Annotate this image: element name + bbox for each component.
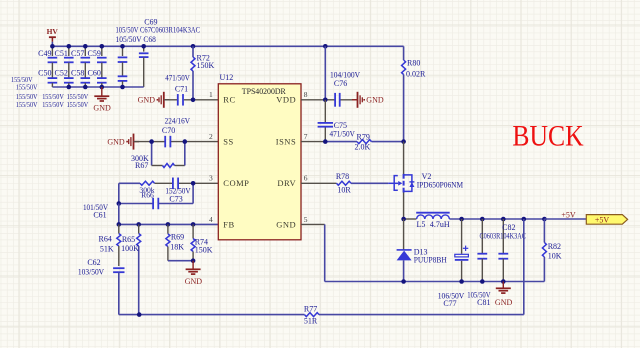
junction (VDD node) (323, 98, 328, 103)
svg-text:+5V: +5V (561, 210, 576, 219)
wire COMP top branch (119, 182, 219, 184)
resistor R66 (139, 181, 154, 199)
resistor R80 (402, 46, 426, 141)
wire VDD row (301, 99, 358, 101)
svg-text:FB: FB (223, 219, 234, 229)
label BUCK (512, 119, 583, 152)
svg-text:2.0K: 2.0K (355, 142, 371, 151)
svg-text:8: 8 (304, 90, 308, 99)
svg-text:C49: C49 (38, 49, 51, 58)
svg-text:BUCK: BUCK (512, 119, 583, 152)
svg-text:PUUP8BH: PUUP8BH (414, 255, 447, 264)
resistor R79 (355, 132, 372, 151)
svg-text:105/50V C67C0603R104K3AC: 105/50V C67C0603R104K3AC (116, 25, 201, 34)
capacitor C71 (165, 74, 190, 106)
resistor R67 (131, 142, 185, 171)
svg-text:C71: C71 (175, 84, 188, 93)
capacitor C68 (139, 46, 149, 87)
svg-text:GND: GND (93, 104, 111, 113)
capacitor C75 (318, 100, 355, 142)
wire feedback (long bottom) (119, 219, 524, 315)
svg-text:R78: R78 (336, 172, 349, 181)
svg-text:C59: C59 (88, 49, 101, 58)
wire bank bottom bus (52, 86, 143, 88)
svg-text:C58: C58 (71, 69, 84, 78)
svg-text:RC: RC (223, 95, 235, 105)
junction dots output bus (401, 217, 546, 222)
resistor R78 (336, 172, 352, 194)
svg-text:10K: 10K (548, 252, 562, 261)
capacitor C49/C50 (input bank) (38, 46, 57, 87)
svg-text:0.02R: 0.02R (406, 70, 426, 79)
svg-text:R65: R65 (122, 235, 135, 244)
svg-text:C61: C61 (93, 211, 106, 220)
svg-text:155/50V: 155/50V (16, 100, 38, 109)
ground (C71) (138, 92, 170, 108)
node +5V label (561, 210, 576, 219)
svg-text:51R: 51R (304, 317, 318, 326)
junction (R74/R69 gnd node) (191, 258, 196, 263)
capacitor C59/C60 (input bank) (88, 46, 107, 87)
capacitor C82 (480, 219, 526, 282)
wire VDD to bus (324, 46, 326, 100)
junction dots ground bus (401, 279, 505, 284)
resistor R65 (121, 224, 141, 314)
svg-text:155/50V: 155/50V (16, 83, 38, 92)
svg-text:COMP: COMP (223, 178, 249, 188)
ground (C70) (107, 134, 139, 150)
capacitor C76 (330, 70, 360, 106)
svg-text:7: 7 (304, 132, 308, 141)
svg-text:C57: C57 (71, 49, 84, 58)
resistor R64 (99, 224, 121, 266)
svg-text:3: 3 (209, 174, 213, 183)
wire GND pin 5 (301, 224, 325, 281)
svg-text:51K: 51K (100, 245, 114, 254)
inductor L5 (416, 213, 450, 229)
svg-text:10R: 10R (337, 185, 351, 194)
wire to +5V port (544, 218, 586, 220)
wire input bus (52, 45, 403, 47)
svg-text:GND: GND (495, 298, 513, 307)
value labels input bank 155/50V (11, 75, 89, 109)
svg-text:6: 6 (304, 174, 308, 183)
svg-text:VDD: VDD (276, 95, 296, 105)
svg-text:C0603R104K3AC: C0603R104K3AC (480, 231, 526, 240)
svg-text:C77: C77 (443, 299, 456, 308)
svg-text:R77: R77 (304, 304, 317, 313)
svg-text:R66: R66 (141, 190, 154, 199)
capacitor C51/C52 (input bank) (55, 46, 74, 87)
junction (RC node) (191, 98, 196, 103)
svg-text:5: 5 (304, 215, 308, 224)
svg-text:ISNS: ISNS (276, 137, 296, 147)
wire SS row (134, 141, 219, 143)
svg-text:C52: C52 (55, 69, 68, 78)
junction dots ISNS node (323, 139, 406, 144)
svg-text:471/50V: 471/50V (165, 74, 190, 83)
resistor R69 (166, 224, 193, 260)
svg-text:471/50V: 471/50V (330, 130, 356, 139)
svg-text:18K: 18K (170, 243, 184, 252)
capacitor C57/C58 (input bank) (71, 46, 90, 87)
svg-text:150K: 150K (195, 245, 213, 254)
svg-text:DRV: DRV (277, 178, 296, 188)
svg-text:155/50V: 155/50V (67, 100, 89, 109)
svg-text:SS: SS (223, 137, 233, 147)
capacitor C73 (165, 178, 191, 204)
svg-text:4.7uH: 4.7uH (430, 220, 450, 229)
svg-text:103/50V: 103/50V (78, 268, 104, 277)
ground (C76) (352, 92, 384, 108)
svg-text:+5V: +5V (595, 215, 610, 224)
svg-text:L5: L5 (417, 220, 426, 229)
svg-text:R67: R67 (135, 161, 148, 170)
resistor R77 (304, 304, 319, 325)
power port +5V flag (586, 215, 627, 225)
svg-text:U12: U12 (220, 73, 234, 82)
svg-text:C76: C76 (334, 79, 347, 88)
svg-text:C73: C73 (169, 194, 182, 203)
capacitor C70 (162, 116, 190, 147)
junction dots FB row (117, 222, 196, 227)
svg-text:155/50V: 155/50V (42, 100, 64, 109)
wire DRV row (301, 182, 388, 184)
wire RC row (164, 99, 219, 101)
resistor R74 (191, 224, 213, 260)
svg-text:224/16V: 224/16V (165, 116, 191, 125)
svg-text:2: 2 (209, 132, 213, 141)
svg-text:R80: R80 (407, 59, 420, 68)
transistor V2 IPD650P06NM (388, 142, 463, 219)
svg-text:C81: C81 (477, 298, 490, 307)
svg-text:IPD650P06NM: IPD650P06NM (417, 180, 463, 189)
capacitor C81 (467, 219, 490, 307)
labels C69 / C67 / C68 values (116, 17, 201, 44)
ground (input bank) (93, 87, 111, 113)
svg-text:HV: HV (47, 27, 59, 36)
op-amp U12 TPS40200DR (209, 73, 308, 240)
svg-text:C50: C50 (38, 69, 51, 78)
ground (FB divider) (185, 261, 203, 286)
wire output node to L5 (404, 218, 545, 220)
svg-text:GND: GND (276, 219, 296, 229)
svg-text:R82: R82 (548, 242, 561, 251)
capacitor C62 (78, 258, 125, 315)
ground (output) (495, 282, 513, 307)
svg-text:C62: C62 (87, 258, 100, 267)
junction dots SS node (149, 139, 187, 144)
power port HV (47, 27, 59, 47)
resistor R72 (191, 46, 215, 100)
junction dots input bus (50, 44, 328, 49)
svg-text:105/50V C68: 105/50V C68 (116, 35, 156, 44)
capacitor C67 (two series) (118, 46, 128, 87)
svg-text:C60: C60 (88, 69, 101, 78)
wire COMP left leg (118, 183, 120, 203)
svg-text:GND: GND (138, 96, 156, 105)
svg-text:100K: 100K (121, 244, 139, 253)
svg-text:R64: R64 (99, 235, 112, 244)
svg-text:C51: C51 (55, 49, 68, 58)
wire C61 column (118, 204, 120, 225)
svg-text:R79: R79 (357, 132, 370, 141)
svg-text:C70: C70 (162, 126, 175, 135)
svg-text:1: 1 (209, 90, 213, 99)
wire COMP lower branch (119, 183, 193, 203)
svg-text:104/100V: 104/100V (330, 70, 360, 79)
junction dots bank bottom bus (67, 85, 125, 90)
svg-text:R69: R69 (171, 232, 184, 241)
junction (lower branch tap) (117, 201, 122, 206)
wire ground return bus (325, 281, 545, 283)
resistor R82 (542, 219, 561, 282)
svg-text:GND: GND (185, 277, 203, 286)
diode D13 PUUP8BH (397, 219, 447, 282)
svg-text:4: 4 (209, 215, 213, 224)
junction (feedback/R65) (137, 312, 142, 317)
junction (COMP node) (191, 181, 196, 186)
capacitor C77 (polarized) (438, 219, 469, 308)
wire FB row (119, 223, 219, 225)
svg-text:GND: GND (366, 96, 384, 105)
capacitor C61 (83, 198, 158, 220)
svg-text:GND: GND (107, 138, 125, 147)
wire ISNS row (301, 141, 404, 143)
svg-text:150K: 150K (197, 61, 215, 70)
